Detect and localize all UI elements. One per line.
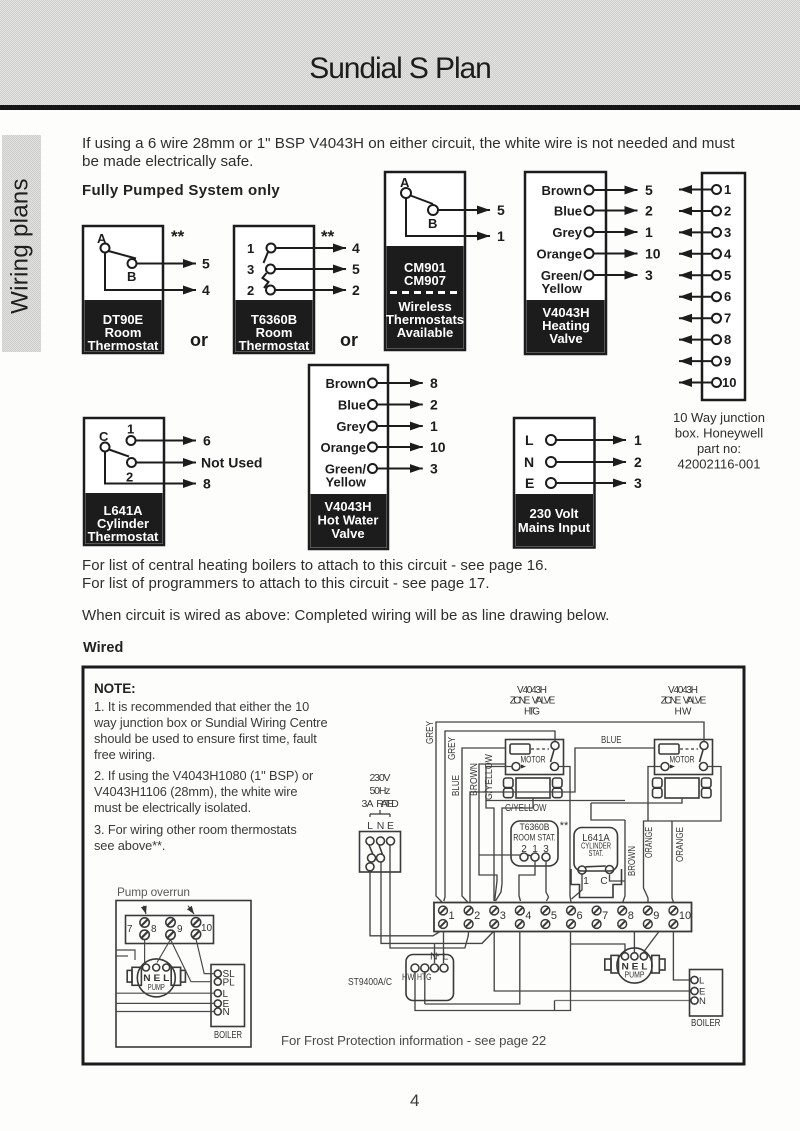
svg-text:6: 6: [724, 289, 731, 304]
svg-text:1: 1: [583, 876, 589, 887]
svg-text:N: N: [377, 820, 385, 832]
svg-text:1: 1: [634, 432, 642, 448]
svg-text:3A: 3A: [362, 798, 374, 810]
svg-text:4: 4: [352, 240, 360, 256]
svg-text:1: 1: [430, 418, 438, 434]
svg-text:HW: HW: [402, 972, 415, 983]
svg-text:BLUE: BLUE: [601, 735, 622, 746]
svg-text:Yellow: Yellow: [326, 475, 367, 490]
svg-text:B: B: [127, 269, 136, 284]
svg-text:**: **: [171, 227, 185, 246]
svg-text:Valve: Valve: [549, 331, 582, 346]
svg-text:For Frost Protection informati: For Frost Protection information - see p…: [281, 1033, 546, 1048]
svg-text:see above**.: see above**.: [94, 838, 165, 853]
svg-text:2: 2: [724, 204, 731, 219]
svg-text:1: 1: [532, 844, 538, 855]
svg-text:GREY: GREY: [447, 737, 458, 760]
svg-text:ST9400A/C: ST9400A/C: [348, 976, 392, 988]
svg-text:VALVE: VALVE: [532, 696, 556, 707]
svg-text:free wiring.: free wiring.: [94, 747, 155, 762]
svg-text:7: 7: [127, 924, 133, 935]
svg-text:way junction box or Sundial Wi: way junction box or Sundial Wiring Centr…: [93, 715, 327, 730]
svg-text:For list of programmers to att: For list of programmers to attach to thi…: [82, 575, 490, 592]
svg-text:C: C: [99, 429, 109, 444]
svg-text:9: 9: [177, 924, 183, 935]
svg-text:8: 8: [151, 924, 157, 935]
svg-text:RATED: RATED: [376, 798, 399, 810]
svg-text:Valve: Valve: [331, 526, 364, 541]
svg-text:10: 10: [430, 439, 446, 455]
svg-text:Pump overrun: Pump overrun: [117, 885, 190, 899]
svg-text:Blue: Blue: [338, 398, 366, 413]
svg-text:PUMP: PUMP: [625, 970, 645, 980]
svg-text:230V: 230V: [370, 772, 391, 784]
svg-text:must be electrically isolated.: must be electrically isolated.: [94, 800, 251, 815]
svg-text:L: L: [525, 432, 534, 448]
svg-text:3: 3: [645, 267, 653, 283]
svg-text:GREY: GREY: [425, 721, 436, 744]
svg-text:MOTOR: MOTOR: [670, 755, 695, 765]
svg-text:or: or: [190, 330, 208, 350]
svg-text:ORANGE: ORANGE: [675, 827, 686, 862]
svg-text:PUMP: PUMP: [148, 982, 165, 992]
svg-text:2: 2: [247, 283, 254, 298]
svg-text:MOTOR: MOTOR: [521, 755, 546, 765]
svg-text:Yellow: Yellow: [542, 281, 583, 296]
svg-text:E: E: [525, 475, 534, 491]
svg-text:3: 3: [500, 910, 506, 922]
svg-text:Grey: Grey: [336, 419, 366, 434]
svg-text:ZONE: ZONE: [661, 696, 682, 707]
svg-text:N: N: [524, 454, 534, 470]
svg-text:7: 7: [724, 311, 731, 326]
svg-text:PL: PL: [223, 978, 236, 989]
svg-text:42002116-001: 42002116-001: [678, 457, 761, 472]
svg-text:ZONE: ZONE: [510, 696, 531, 707]
svg-text:1: 1: [645, 224, 653, 240]
svg-text:L: L: [443, 951, 449, 963]
svg-text:B: B: [428, 216, 437, 231]
svg-text:Thermostat: Thermostat: [88, 338, 159, 353]
svg-text:4: 4: [724, 246, 732, 261]
svg-text:5: 5: [497, 202, 505, 218]
svg-text:1: 1: [724, 182, 731, 197]
svg-text:1. It is recommended that eith: 1. It is recommended that either the 10: [94, 699, 309, 714]
svg-text:Mains Input: Mains Input: [518, 520, 591, 535]
svg-text:2: 2: [634, 454, 642, 470]
svg-text:ORANGE: ORANGE: [644, 827, 655, 858]
svg-text:10 Way junction: 10 Way junction: [673, 410, 765, 425]
svg-text:9: 9: [653, 910, 659, 922]
svg-text:10: 10: [201, 923, 213, 934]
svg-text:2: 2: [521, 844, 527, 855]
svg-text:8: 8: [628, 910, 634, 922]
svg-text:2. If using the V4043H1080 (1": 2. If using the V4043H1080 (1" BSP) or: [94, 768, 314, 783]
svg-text:5: 5: [352, 261, 360, 277]
svg-text:3: 3: [430, 461, 438, 477]
svg-text:1: 1: [127, 422, 134, 437]
svg-text:L: L: [699, 976, 704, 987]
svg-text:Orange: Orange: [320, 440, 366, 455]
svg-text:N: N: [223, 1007, 230, 1018]
svg-text:230 Volt: 230 Volt: [530, 506, 580, 521]
svg-text:NOTE:: NOTE:: [94, 681, 136, 696]
svg-text:box. Honeywell: box. Honeywell: [675, 426, 763, 441]
svg-text:BLUE: BLUE: [451, 775, 462, 796]
svg-text:Brown: Brown: [326, 376, 367, 391]
svg-text:HW: HW: [675, 707, 693, 718]
svg-text:2: 2: [126, 470, 133, 485]
svg-text:When circuit is wired as above: When circuit is wired as above: Complete…: [82, 607, 610, 624]
svg-text:10: 10: [645, 246, 661, 262]
svg-text:V4043H: V4043H: [668, 685, 698, 696]
svg-text:Available: Available: [397, 325, 454, 340]
svg-text:BOILER: BOILER: [214, 1030, 242, 1041]
svg-text:8: 8: [203, 476, 211, 492]
svg-text:-: -: [437, 951, 440, 961]
svg-text:1: 1: [247, 241, 254, 256]
svg-text:C: C: [600, 876, 607, 887]
svg-text:1: 1: [497, 228, 505, 244]
svg-text:Thermostat: Thermostat: [88, 529, 159, 544]
svg-text:4: 4: [410, 1091, 419, 1110]
svg-text:Fully Pumped System only: Fully Pumped System only: [82, 182, 280, 199]
svg-text:N: N: [699, 996, 706, 1007]
svg-text:L: L: [367, 820, 373, 832]
svg-text:5: 5: [202, 256, 210, 272]
svg-text:A: A: [400, 175, 410, 190]
svg-text:3: 3: [634, 475, 642, 491]
svg-text:7: 7: [602, 910, 608, 922]
svg-text:6: 6: [203, 433, 211, 449]
svg-text:10: 10: [722, 375, 736, 390]
svg-text:VALVE: VALVE: [683, 696, 707, 707]
svg-text:V4043H1106 (28mm), the white w: V4043H1106 (28mm), the white wire: [94, 784, 297, 799]
svg-text:ROOM STAT.: ROOM STAT.: [513, 833, 556, 844]
svg-text:For list of central heating bo: For list of central heating boilers to a…: [82, 557, 548, 574]
svg-text:BROWN: BROWN: [627, 846, 638, 876]
svg-text:2: 2: [474, 910, 480, 922]
svg-text:**: **: [321, 227, 335, 246]
svg-text:be made electrically safe.: be made electrically safe.: [82, 153, 253, 170]
svg-text:E: E: [387, 820, 394, 832]
svg-text:4: 4: [525, 910, 531, 922]
svg-text:Thermostat: Thermostat: [239, 338, 310, 353]
svg-text:50Hz: 50Hz: [370, 785, 391, 797]
svg-text:Wired: Wired: [83, 640, 123, 656]
svg-text:STAT.: STAT.: [589, 848, 604, 858]
svg-text:8: 8: [430, 375, 438, 391]
svg-text:part no:: part no:: [697, 441, 741, 456]
svg-text:A: A: [97, 231, 107, 246]
svg-text:Brown: Brown: [542, 183, 583, 198]
svg-text:Orange: Orange: [536, 247, 582, 262]
svg-text:4: 4: [202, 282, 210, 298]
svg-text:Blue: Blue: [554, 204, 582, 219]
svg-text:**: **: [560, 820, 569, 832]
svg-text:should be used to ensure first: should be used to ensure first time, fau…: [94, 731, 317, 746]
svg-text:2: 2: [352, 282, 360, 298]
svg-text:3: 3: [247, 262, 254, 277]
svg-text:10: 10: [679, 910, 691, 922]
svg-text:If using a 6 wire 28mm or 1" B: If using a 6 wire 28mm or 1" BSP V4043H …: [82, 135, 735, 152]
svg-text:Grey: Grey: [552, 225, 582, 240]
svg-text:BOILER: BOILER: [691, 1018, 721, 1029]
svg-text:CM907: CM907: [404, 273, 446, 288]
svg-text:9: 9: [724, 354, 731, 369]
svg-text:6: 6: [577, 910, 583, 922]
svg-text:HTG: HTG: [417, 972, 432, 983]
svg-text:1: 1: [449, 910, 455, 922]
svg-text:HTG: HTG: [524, 707, 540, 718]
svg-text:5: 5: [645, 182, 653, 198]
svg-text:V4043H: V4043H: [517, 685, 547, 696]
svg-text:5: 5: [724, 268, 731, 283]
svg-text:2: 2: [430, 397, 438, 413]
svg-text:T6360B: T6360B: [520, 822, 550, 833]
svg-text:3. For wiring other room therm: 3. For wiring other room thermostats: [94, 822, 297, 837]
svg-text:3: 3: [724, 225, 731, 240]
svg-text:2: 2: [645, 203, 653, 219]
svg-text:Not Used: Not Used: [201, 455, 262, 471]
svg-text:5: 5: [551, 910, 557, 922]
svg-text:3: 3: [543, 844, 549, 855]
svg-text:or: or: [340, 330, 358, 350]
svg-text:8: 8: [724, 332, 731, 347]
